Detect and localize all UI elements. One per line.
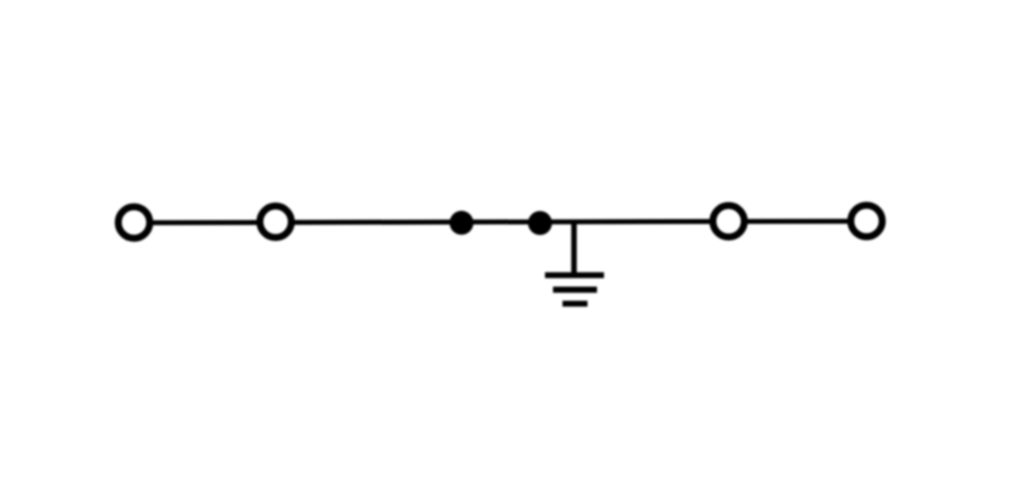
- terminal circle (far left open terminal): [118, 207, 150, 239]
- wire (ground stub, vertical drop from net): [571, 222, 577, 275]
- junction dot (node at x=540, ground tap): [528, 211, 552, 235]
- terminal circle (far right open terminal): [851, 205, 883, 237]
- junction dot (node at x=461): [450, 211, 474, 235]
- terminal circle (second open terminal): [260, 206, 292, 238]
- wire (main horizontal net from left terminal to right terminal): [134, 221, 867, 223]
- ground: [545, 275, 604, 304]
- terminal circle (third open terminal): [713, 206, 745, 238]
